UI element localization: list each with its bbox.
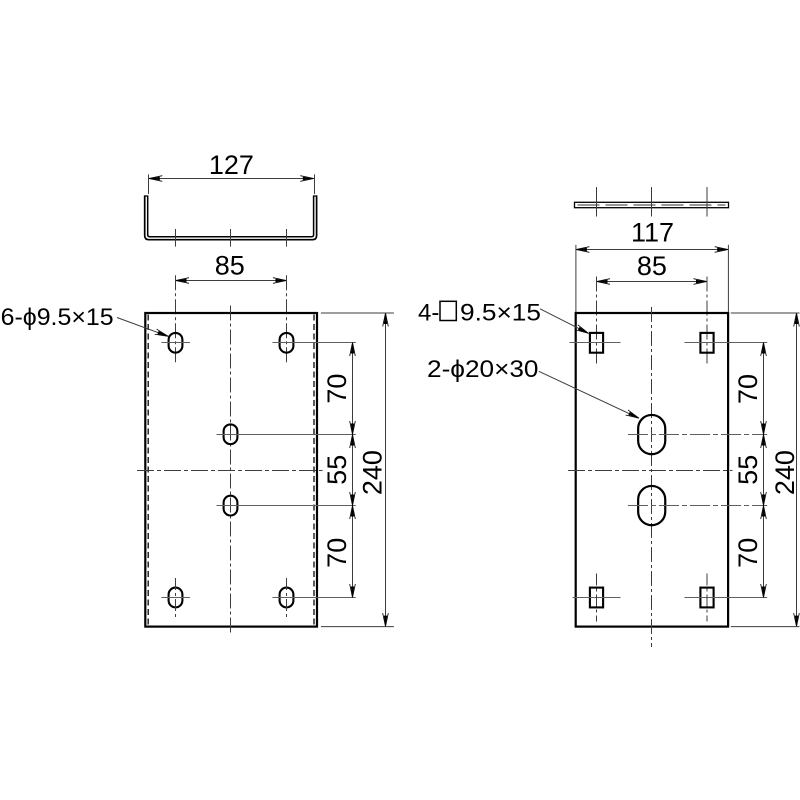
svg-text:55: 55 <box>322 455 352 485</box>
svg-text:70: 70 <box>322 374 352 404</box>
svg-text:55: 55 <box>733 455 763 485</box>
svg-text:85: 85 <box>637 251 667 281</box>
svg-text:117: 117 <box>631 218 674 248</box>
svg-text:6-ϕ9.5×15: 6-ϕ9.5×15 <box>1 304 114 331</box>
svg-text:240: 240 <box>358 450 388 495</box>
svg-text:2-ϕ20×30: 2-ϕ20×30 <box>427 356 539 383</box>
svg-text:70: 70 <box>733 374 763 404</box>
svg-text:9.5×15: 9.5×15 <box>460 300 541 327</box>
svg-text:70: 70 <box>322 538 352 568</box>
svg-text:4-: 4- <box>418 300 439 327</box>
svg-text:85: 85 <box>215 250 245 280</box>
svg-text:127: 127 <box>209 150 254 180</box>
svg-text:70: 70 <box>733 538 763 568</box>
svg-text:240: 240 <box>770 450 800 495</box>
